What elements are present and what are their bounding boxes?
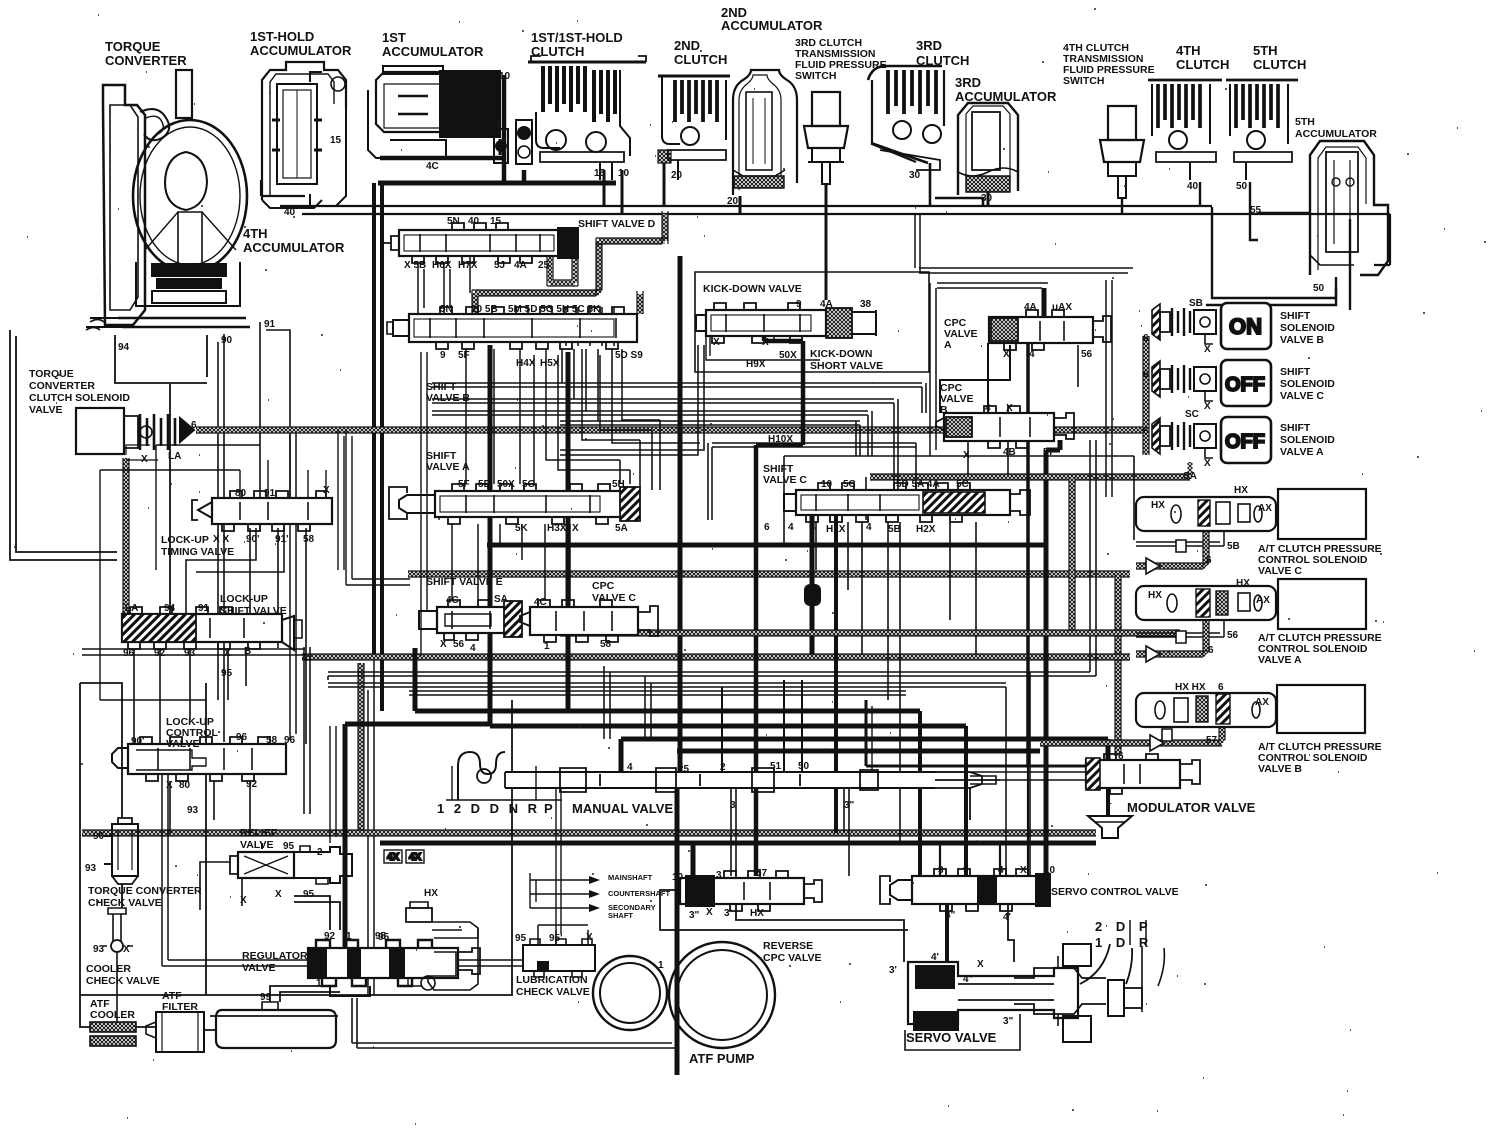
CPC valve C bbox=[520, 600, 658, 642]
svg-text:15: 15 bbox=[490, 216, 502, 227]
regulator valve bbox=[308, 940, 480, 996]
svg-text:SHIFT VALVE E: SHIFT VALVE E bbox=[426, 576, 503, 588]
svg-text:3": 3" bbox=[1003, 1016, 1014, 1027]
svg-text:1: 1 bbox=[316, 978, 322, 989]
wire 1020 vertical bbox=[1026, 343, 1030, 766]
wire TC check valve link bbox=[80, 683, 122, 908]
wire kick-down drop thick bbox=[756, 336, 803, 876]
svg-text:SHIFT: SHIFT bbox=[1280, 366, 1311, 378]
wire 51 drop bbox=[784, 680, 802, 772]
wire 3 below manual bbox=[731, 788, 736, 876]
2nd accumulator bbox=[733, 70, 797, 195]
svg-text:TORQUE: TORQUE bbox=[29, 368, 74, 380]
svg-text:SERVO CONTROL VALVE: SERVO CONTROL VALVE bbox=[1051, 886, 1179, 898]
svg-text:2: 2 bbox=[317, 847, 323, 858]
wire hatched band 657 bbox=[302, 654, 1130, 660]
svg-text:4A: 4A bbox=[1024, 302, 1037, 313]
wire lock-up shift to control verticals bbox=[134, 649, 246, 744]
wire 57 hatched line bbox=[1040, 741, 1222, 746]
wire H2X vertical bbox=[918, 711, 922, 876]
wire 6 solenoid feeder vertical bbox=[1144, 336, 1149, 455]
svg-text:X: X bbox=[586, 932, 593, 943]
svg-text:6: 6 bbox=[1143, 426, 1149, 437]
svg-text:ACCUMULATOR: ACCUMULATOR bbox=[250, 43, 352, 58]
svg-text:50: 50 bbox=[798, 761, 810, 772]
wire 56 hatched line bbox=[560, 631, 1180, 636]
wire main bus lower bbox=[302, 214, 1390, 265]
svg-text:ON: ON bbox=[1229, 314, 1262, 339]
wire solenoid C 5B link bbox=[1136, 522, 1224, 546]
svg-text:5D S9: 5D S9 bbox=[615, 350, 643, 361]
svg-text:CPC: CPC bbox=[592, 580, 615, 592]
svg-text:3": 3" bbox=[844, 800, 855, 811]
svg-text:COOLER: COOLER bbox=[90, 1009, 135, 1021]
ATF pump bbox=[593, 942, 775, 1048]
svg-text:LA: LA bbox=[125, 603, 138, 614]
3rd accumulator bbox=[958, 103, 1018, 195]
wire 50 to 5th accumulator bbox=[1212, 207, 1336, 298]
svg-text:90': 90' bbox=[246, 534, 260, 545]
svg-text:3RD: 3RD bbox=[916, 38, 942, 53]
wire 10 drop bbox=[621, 170, 624, 214]
svg-text:6: 6 bbox=[1118, 751, 1124, 762]
wire hatched main band bbox=[408, 571, 1130, 577]
svg-text:AX: AX bbox=[1258, 503, 1272, 514]
4th clutch bbox=[1148, 80, 1222, 180]
svg-text:40: 40 bbox=[468, 216, 480, 227]
svg-text:20 5B: 20 5B bbox=[471, 304, 498, 315]
wire CPC A to B bbox=[940, 343, 1010, 413]
svg-text:1 D R: 1 D R bbox=[1095, 935, 1153, 950]
svg-text:HX: HX bbox=[1148, 590, 1162, 601]
svg-text:94: 94 bbox=[118, 342, 130, 353]
svg-text:6: 6 bbox=[1143, 333, 1149, 344]
wire CPC B drops bbox=[968, 441, 1008, 474]
svg-text:57: 57 bbox=[756, 868, 768, 879]
cooler check valve bbox=[103, 908, 133, 952]
wire mainshaft arrows bbox=[589, 876, 600, 912]
svg-text:OFF: OFF bbox=[1225, 431, 1265, 453]
relief valve bbox=[230, 846, 352, 884]
svg-text:P: P bbox=[544, 801, 553, 816]
wire thick 5C vertical bbox=[566, 352, 571, 711]
wire relief drop bbox=[200, 862, 242, 910]
svg-text:4A: 4A bbox=[820, 299, 833, 310]
svg-text:MAINSHAFT: MAINSHAFT bbox=[608, 873, 653, 882]
svg-text:SHIFT: SHIFT bbox=[1280, 310, 1311, 322]
1st/1st-hold clutch bbox=[528, 56, 646, 180]
svg-text:4': 4' bbox=[931, 952, 939, 963]
svg-text:VALVE A: VALVE A bbox=[1280, 446, 1324, 458]
svg-text:H4X: H4X bbox=[516, 358, 536, 369]
wire thick 5H vertical bbox=[490, 345, 966, 726]
svg-text:1 2 D D N R: 1 2 D D N R bbox=[437, 801, 540, 816]
svg-text:RELIEF: RELIEF bbox=[240, 827, 278, 839]
svg-text:4X: 4X bbox=[409, 852, 422, 863]
svg-text:SHIFT VALVE: SHIFT VALVE bbox=[220, 605, 287, 617]
svg-text:95: 95 bbox=[283, 841, 295, 852]
svg-text:LOCK-UP: LOCK-UP bbox=[161, 534, 209, 546]
wire hatched staircase 20 bbox=[663, 214, 668, 241]
manual valve detent bbox=[458, 752, 505, 800]
wire 20 drop 2nd clutch bbox=[663, 163, 666, 206]
svg-text:VALVE C: VALVE C bbox=[1280, 390, 1324, 402]
svg-text:2: 2 bbox=[720, 762, 726, 773]
svg-text:X: X bbox=[275, 889, 282, 900]
wire 99 pan bbox=[270, 986, 340, 1002]
svg-text:5G: 5G bbox=[522, 479, 536, 490]
svg-text:3': 3' bbox=[889, 965, 897, 976]
node blob bbox=[804, 584, 821, 606]
wire modulator funnel drop bbox=[1106, 788, 1110, 816]
lock-up shift valve bbox=[122, 607, 302, 650]
wire 50 acc bottom bbox=[1206, 277, 1336, 305]
wire 40 drop bbox=[1199, 182, 1201, 206]
wire servo control inputs bbox=[940, 766, 1028, 876]
svg-text:TIMING VALVE: TIMING VALVE bbox=[161, 546, 234, 558]
torque converter check valve bbox=[104, 818, 138, 884]
svg-text:B: B bbox=[940, 404, 948, 416]
wire shaft lines bbox=[530, 873, 590, 908]
wire servo right fork lines bbox=[1130, 920, 1146, 945]
svg-text:ACCUMULATOR: ACCUMULATOR bbox=[721, 18, 823, 33]
svg-text:KICK-DOWN: KICK-DOWN bbox=[810, 348, 872, 360]
svg-text:80: 80 bbox=[235, 488, 247, 499]
wire 20 drop 2nd accumulator bbox=[739, 196, 742, 214]
wire thick horizontal 751 bbox=[677, 749, 1040, 754]
shift valve A bbox=[389, 484, 640, 524]
wire 1072 hatched vertical bbox=[1070, 477, 1075, 633]
wire 2 drop bbox=[721, 687, 723, 772]
wire control valve drops bbox=[170, 781, 250, 833]
svg-text:3': 3' bbox=[724, 908, 732, 919]
wire shift valve C box bbox=[784, 456, 1134, 545]
svg-text:5J: 5J bbox=[494, 260, 505, 271]
svg-text:96: 96 bbox=[284, 735, 296, 746]
svg-text:4C: 4C bbox=[534, 597, 547, 608]
svg-text:15: 15 bbox=[594, 168, 606, 179]
svg-text:CLUTCH: CLUTCH bbox=[916, 53, 969, 68]
wire left band pair bbox=[82, 649, 305, 655]
3rd clutch bbox=[868, 66, 944, 170]
kick-down valve bbox=[696, 303, 876, 343]
svg-text:X: X bbox=[706, 907, 713, 918]
svg-text:3: 3 bbox=[938, 865, 944, 876]
wire CPC B blob vertical bbox=[810, 515, 815, 584]
svg-text:1: 1 bbox=[544, 641, 550, 652]
svg-text:1: 1 bbox=[658, 960, 664, 971]
wire hatched band to modulator bbox=[1116, 574, 1121, 756]
svg-text:9: 9 bbox=[440, 350, 446, 361]
svg-text:KICK-DOWN VALVE: KICK-DOWN VALVE bbox=[703, 283, 802, 295]
svg-text:CLUTCH: CLUTCH bbox=[674, 52, 727, 67]
svg-text:80: 80 bbox=[179, 780, 191, 791]
A/T clutch pressure control solenoid valve A body bbox=[1136, 586, 1276, 620]
wire solenoid B 57 link bbox=[1220, 724, 1225, 743]
svg-text:4: 4 bbox=[866, 522, 872, 533]
svg-text:X: X bbox=[166, 780, 173, 791]
wire thick 4 line manual bbox=[619, 739, 624, 772]
svg-text:ACCUMULATOR: ACCUMULATOR bbox=[1295, 128, 1377, 140]
svg-text:95: 95 bbox=[515, 933, 527, 944]
svg-text:VALVE: VALVE bbox=[242, 962, 275, 974]
5th accumulator bbox=[1310, 141, 1388, 275]
shift valve C bbox=[784, 483, 1030, 522]
svg-text:4A: 4A bbox=[514, 260, 527, 271]
svg-text:96: 96 bbox=[236, 732, 248, 743]
wire thick horizontal 711 bbox=[415, 709, 920, 714]
svg-text:25: 25 bbox=[678, 764, 690, 775]
servo control valve bbox=[880, 869, 1050, 911]
wire CPC A 56 drop bbox=[1077, 345, 1079, 387]
torque converter clutch solenoid valve bbox=[76, 408, 194, 454]
svg-text:90: 90 bbox=[221, 335, 233, 346]
svg-text:4C: 4C bbox=[446, 595, 459, 606]
shift valve B bbox=[387, 307, 637, 349]
svg-text:6: 6 bbox=[1218, 682, 1224, 693]
svg-text:99: 99 bbox=[260, 992, 272, 1003]
4X boxed labels bbox=[384, 850, 424, 863]
svg-text:5N: 5N bbox=[447, 216, 460, 227]
svg-text:VALVE A: VALVE A bbox=[426, 461, 470, 473]
svg-text:SC: SC bbox=[1185, 409, 1199, 420]
wire left box verticals bbox=[80, 683, 216, 1030]
wire thin pair 691 bbox=[409, 691, 906, 695]
A/T CPC valve A coil box bbox=[1278, 579, 1366, 629]
svg-text:1ST-HOLD: 1ST-HOLD bbox=[250, 29, 314, 44]
svg-text:3RD: 3RD bbox=[955, 75, 981, 90]
svg-text:H3X: H3X bbox=[547, 523, 567, 534]
modulator valve bbox=[1086, 754, 1200, 838]
svg-text:90': 90' bbox=[131, 736, 145, 747]
wire SA hatched line bbox=[870, 462, 1190, 477]
A/T CPC valve B coil box bbox=[1277, 685, 1365, 733]
wire shift valve frame bbox=[421, 352, 427, 656]
1st accumulator drain valves bbox=[494, 120, 532, 164]
svg-text:50X: 50X bbox=[779, 350, 797, 361]
svg-text:X: X bbox=[240, 895, 247, 906]
svg-text:9: 9 bbox=[796, 299, 802, 310]
wire 91 pair down bbox=[290, 433, 296, 740]
svg-text:SWITCH: SWITCH bbox=[795, 70, 836, 82]
manual valve bbox=[446, 752, 996, 800]
svg-text:CLUTCH SOLENOID: CLUTCH SOLENOID bbox=[29, 392, 130, 404]
CPC valve A bbox=[989, 310, 1111, 350]
svg-text:ACCUMULATOR: ACCUMULATOR bbox=[955, 89, 1057, 104]
wire small fittings bbox=[1146, 558, 1164, 751]
svg-text:93: 93 bbox=[93, 944, 105, 955]
svg-text:90: 90 bbox=[93, 831, 105, 842]
svg-text:X: X bbox=[323, 485, 330, 496]
svg-text:VALVE: VALVE bbox=[166, 738, 199, 750]
wire manual to lube pair bbox=[556, 789, 561, 940]
wire solenoid A 56 link bbox=[1136, 615, 1224, 637]
svg-text:58: 58 bbox=[303, 534, 315, 545]
svg-text:4: 4 bbox=[998, 865, 1004, 876]
svg-text:VALVE B: VALVE B bbox=[426, 392, 470, 404]
svg-text:VALVE C: VALVE C bbox=[592, 592, 636, 604]
svg-text:4B: 4B bbox=[1003, 447, 1016, 458]
svg-text:SA: SA bbox=[1183, 471, 1197, 482]
svg-text:5H: 5H bbox=[612, 479, 625, 490]
svg-text:91: 91 bbox=[198, 603, 210, 614]
A/T clutch pressure control solenoid valve B body bbox=[1136, 693, 1276, 727]
wire 1st acc twin drops bbox=[374, 183, 382, 711]
svg-text:4C: 4C bbox=[426, 161, 439, 172]
wire thick horizontal 843 bbox=[380, 841, 1096, 846]
wire CPC A box bbox=[919, 268, 1133, 456]
wire hatched bottom band bbox=[82, 830, 1096, 836]
bolt fitting bbox=[406, 902, 478, 990]
svg-text:HX: HX bbox=[1234, 485, 1248, 496]
wire central mesh pair 399 bbox=[432, 399, 898, 490]
wire 4th switch drop bbox=[1121, 198, 1123, 214]
1st-hold accumulator bbox=[262, 62, 346, 208]
svg-text:SOLENOID: SOLENOID bbox=[1280, 434, 1335, 446]
svg-text:VALVE B: VALVE B bbox=[1258, 763, 1302, 775]
svg-text:6: 6 bbox=[1208, 645, 1214, 656]
wire kick-down box bbox=[695, 272, 929, 372]
svg-text:VALVE C: VALVE C bbox=[763, 474, 807, 486]
svg-text:CLUTCH: CLUTCH bbox=[1176, 57, 1229, 72]
svg-text:CHECK VALVE: CHECK VALVE bbox=[88, 897, 162, 909]
4th clutch transmission fluid pressure switch bbox=[1100, 106, 1144, 198]
svg-text:CHECK VALVE: CHECK VALVE bbox=[516, 986, 590, 998]
wire central mesh pair 411 bbox=[432, 411, 872, 456]
wire thick 25 line shift valve D to manual bbox=[678, 256, 683, 772]
svg-text:6: 6 bbox=[764, 522, 770, 533]
svg-text:5F: 5F bbox=[458, 350, 470, 361]
svg-text:56: 56 bbox=[453, 639, 465, 650]
svg-text:4X: 4X bbox=[387, 852, 400, 863]
svg-text:92: 92 bbox=[246, 779, 258, 790]
lock-up control valve bbox=[112, 737, 286, 781]
svg-text:MODULATOR VALVE: MODULATOR VALVE bbox=[1127, 800, 1256, 815]
svg-text:A: A bbox=[944, 339, 952, 351]
svg-text:ACCUMULATOR: ACCUMULATOR bbox=[382, 44, 484, 59]
svg-text:SB: SB bbox=[1189, 298, 1203, 309]
svg-text:96: 96 bbox=[123, 648, 135, 659]
svg-text:2 D P: 2 D P bbox=[1095, 919, 1153, 934]
svg-text:HX HX: HX HX bbox=[1175, 682, 1206, 693]
OFF box shift solenoid valve A bbox=[1221, 417, 1271, 463]
svg-text:6: 6 bbox=[191, 420, 197, 431]
svg-text:X: X bbox=[572, 523, 579, 534]
svg-text:MANUAL VALVE: MANUAL VALVE bbox=[572, 801, 673, 816]
wire regulator to relief bbox=[294, 896, 340, 930]
wire inner box 93 loop bbox=[162, 754, 593, 966]
svg-text:91: 91 bbox=[264, 488, 276, 499]
svg-text:5M 5D 5G 5H 5C 5K: 5M 5D 5G 5H 5C 5K bbox=[508, 304, 601, 315]
svg-text:X: X bbox=[1204, 344, 1211, 355]
shift solenoid valve C solenoid bbox=[1152, 361, 1216, 401]
wire 94 bbox=[169, 384, 171, 614]
svg-text:5N: 5N bbox=[440, 304, 453, 315]
svg-text:50X: 50X bbox=[497, 479, 515, 490]
svg-text:SERVO VALVE: SERVO VALVE bbox=[906, 1030, 997, 1045]
svg-text:CONVERTER: CONVERTER bbox=[105, 53, 187, 68]
svg-text:B: B bbox=[244, 646, 251, 657]
svg-text:FILTER: FILTER bbox=[162, 1001, 198, 1013]
svg-text:SHORT VALVE: SHORT VALVE bbox=[810, 360, 883, 372]
wire thin pair 672 bbox=[328, 440, 1096, 676]
wire 30 accumulator drop bbox=[987, 192, 990, 206]
svg-text:ATF PUMP: ATF PUMP bbox=[689, 1051, 755, 1066]
wire manual valve right to servo bbox=[935, 780, 1000, 820]
2nd clutch bbox=[658, 76, 730, 180]
svg-text:92: 92 bbox=[324, 931, 336, 942]
svg-text:X: X bbox=[123, 944, 130, 955]
ON box shift solenoid valve B bbox=[1221, 303, 1271, 349]
ATF cooler bbox=[90, 1022, 136, 1046]
svg-text:3: 3 bbox=[716, 870, 722, 881]
oil pan bbox=[210, 1002, 338, 1048]
wire thick 1 line manual to pump bbox=[675, 788, 680, 1075]
svg-text:6: 6 bbox=[1143, 369, 1149, 380]
svg-text:5TH: 5TH bbox=[1253, 43, 1278, 58]
svg-text:4: 4 bbox=[810, 522, 816, 533]
wire 15 drop bbox=[603, 170, 606, 206]
svg-text:95: 95 bbox=[221, 668, 233, 679]
svg-text:93: 93 bbox=[184, 648, 196, 659]
wire hatched 4A stub bbox=[550, 249, 575, 283]
wire modulator feed bbox=[866, 700, 1086, 766]
svg-text:5K: 5K bbox=[515, 523, 529, 534]
svg-text:50: 50 bbox=[1236, 181, 1248, 192]
wire lock-up timing drops bbox=[250, 528, 306, 744]
shift valve D bbox=[383, 223, 578, 263]
svg-text:1: 1 bbox=[346, 931, 352, 942]
wire right bus drop to solenoid B bbox=[1349, 219, 1351, 310]
wire 3pp below manual bbox=[844, 788, 849, 876]
svg-text:HX: HX bbox=[1236, 578, 1250, 589]
svg-text:X: X bbox=[1204, 458, 1211, 469]
wire thin pair 683 bbox=[328, 683, 1006, 687]
wire timing valve top loop bbox=[100, 445, 260, 700]
CPC valve B bbox=[936, 406, 1074, 448]
wire mesh crossing verticals bbox=[604, 666, 651, 739]
wire 966 vertical bbox=[964, 726, 968, 876]
wire 836 vertical bbox=[834, 515, 838, 833]
wire thick line under 1st clutch bbox=[378, 181, 616, 186]
wire 10 servo feeder bbox=[1046, 440, 1060, 876]
svg-text:X: X bbox=[1003, 349, 1010, 360]
svg-text:X: X bbox=[762, 337, 769, 348]
wire control valve right pair bbox=[330, 726, 336, 843]
wire thick horizontal 739 bbox=[621, 739, 1108, 760]
wire valve B top risers bbox=[566, 307, 614, 346]
svg-text:91': 91' bbox=[275, 534, 289, 545]
wire LA hatched drop bbox=[124, 458, 129, 614]
svg-text:4": 4" bbox=[945, 910, 956, 921]
svg-text:H7X: H7X bbox=[458, 260, 478, 271]
svg-text:25: 25 bbox=[538, 260, 550, 271]
svg-text:COOLER: COOLER bbox=[86, 963, 131, 975]
svg-text:SHAFT: SHAFT bbox=[608, 911, 633, 920]
3rd clutch transmission fluid pressure switch bbox=[804, 92, 848, 184]
wire shift B to A verticals bbox=[466, 349, 660, 484]
svg-text:56: 56 bbox=[1227, 630, 1239, 641]
svg-text:55: 55 bbox=[1250, 205, 1262, 216]
svg-text:VALVE: VALVE bbox=[29, 404, 62, 416]
wire timing valve top links bbox=[240, 460, 326, 498]
wire timing drops elbows bbox=[186, 528, 284, 614]
svg-text:OFF: OFF bbox=[1225, 374, 1265, 396]
svg-text:94: 94 bbox=[164, 603, 176, 614]
wire 50 drop bbox=[1250, 182, 1258, 240]
svg-text:30: 30 bbox=[981, 193, 993, 204]
svg-text:H1X: H1X bbox=[826, 524, 846, 535]
